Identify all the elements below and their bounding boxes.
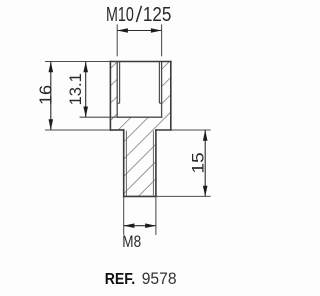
M8 extension lines — [123, 196, 125, 235]
stud left wall — [123, 130, 125, 196]
stud bottom extension to the right (15 dim) — [156, 195, 211, 197]
threaded hole walls (medium) — [117, 62, 161, 118]
M8 arrows — [124, 223, 135, 228]
technical drawing: mirror thread adapter M10/125 to M8, REF. 9578 — [0, 0, 247, 296]
dimension lines — [51, 31, 205, 226]
16 dim line — [50, 62, 52, 131]
M10/125 arrows — [117, 28, 128, 33]
stud thread minor lines (thin) — [126, 131, 153, 196]
dimension texts — [35, 4, 207, 251]
M8 dim line — [124, 225, 156, 227]
svg-text:M8: M8 — [122, 232, 141, 251]
shoulder extension to the left (16 dim) — [45, 129, 110, 131]
M10/125 extension lines — [116, 24, 118, 56]
13.1 dim line — [85, 62, 87, 118]
top face extension to the left (16 / 13.1 dims) — [45, 61, 110, 63]
13.1 arrows — [83, 62, 88, 73]
internal thread minor lines (with end ticks) — [117, 62, 161, 103]
svg-text:REF.: REF. — [105, 271, 136, 288]
hatching (section lines, 45deg) — [110, 62, 170, 197]
right outer wall — [170, 62, 172, 131]
svg-text:13.1: 13.1 — [67, 73, 85, 105]
svg-text:16: 16 — [35, 85, 55, 105]
svg-text:15: 15 — [188, 152, 207, 173]
top face — [110, 61, 170, 63]
shoulder right — [156, 129, 171, 131]
hole bottom extension to the left (13.1 dim) — [80, 116, 118, 118]
svg-text:9578: 9578 — [142, 269, 177, 288]
part outline (thick) — [110, 62, 170, 197]
16 arrows — [49, 62, 54, 73]
15 dim line — [204, 130, 206, 196]
stud right wall — [155, 130, 157, 196]
arrowheads — [49, 28, 208, 228]
shoulder extension to the right (15 dim) — [171, 129, 211, 131]
stud bottom — [124, 195, 156, 197]
left outer wall — [109, 62, 111, 131]
svg-text:125: 125 — [143, 4, 172, 26]
extension lines (thin) — [45, 24, 211, 235]
caption REF. 9578 — [105, 269, 177, 288]
svg-text:M10: M10 — [106, 4, 134, 26]
M10/125 dim line — [117, 30, 161, 32]
shoulder left — [110, 129, 123, 131]
15 arrows — [203, 130, 208, 141]
